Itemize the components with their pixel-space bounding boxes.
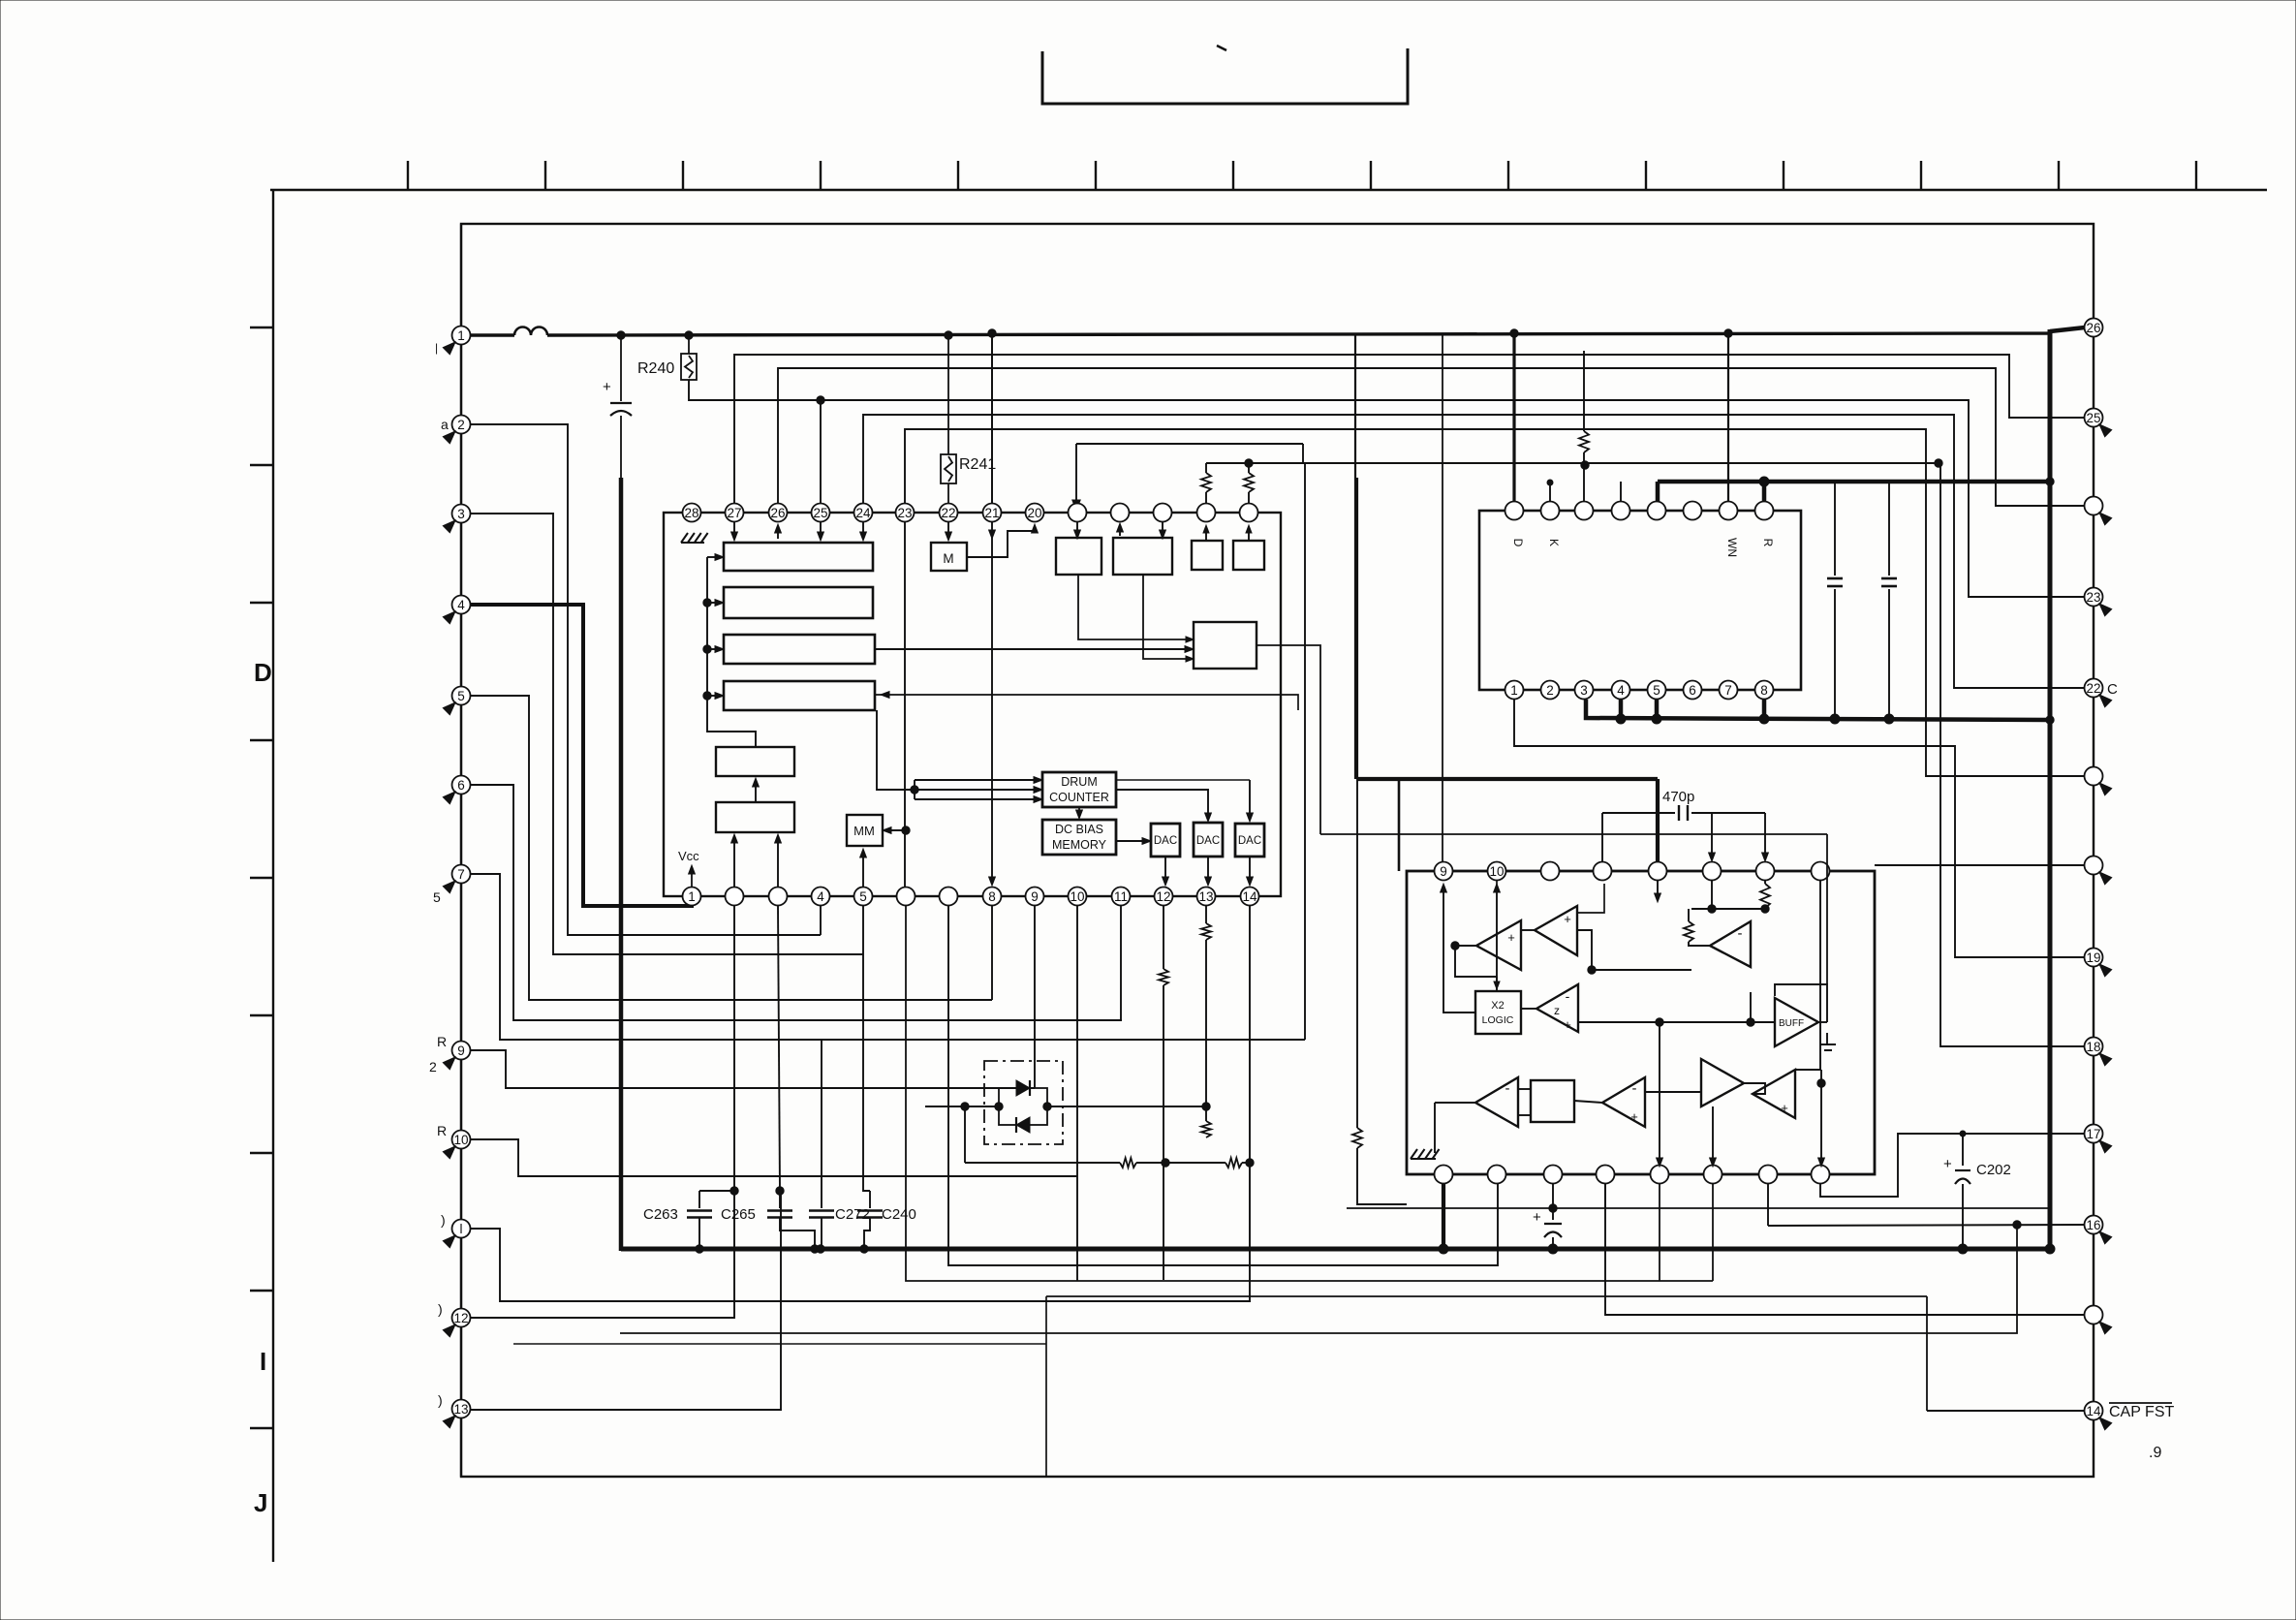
svg-text:WN: WN	[1725, 538, 1739, 557]
svg-text:MM: MM	[853, 824, 875, 838]
svg-text:CAP FST: CAP FST	[2109, 1404, 2175, 1420]
svg-text:C272: C272	[835, 1206, 870, 1223]
svg-text:10: 10	[1070, 889, 1084, 904]
svg-text:DAC: DAC	[1238, 835, 1261, 847]
svg-text:22: 22	[941, 506, 955, 520]
svg-text:27: 27	[727, 506, 741, 520]
svg-text:7: 7	[1724, 683, 1732, 698]
svg-text:19: 19	[2086, 950, 2100, 965]
svg-text:10: 10	[1489, 864, 1504, 879]
svg-text:9: 9	[457, 1044, 465, 1058]
svg-text:+: +	[1781, 1101, 1788, 1115]
svg-text:+: +	[603, 379, 611, 395]
svg-text:3: 3	[457, 507, 465, 521]
svg-text:21: 21	[984, 506, 999, 520]
svg-text:+: +	[1533, 1209, 1541, 1226]
svg-text:22: 22	[2086, 681, 2100, 696]
svg-text:4: 4	[457, 598, 465, 612]
svg-text:R241: R241	[959, 456, 996, 473]
svg-text:C265: C265	[721, 1206, 756, 1223]
svg-text:+: +	[1564, 912, 1571, 926]
svg-text:+: +	[1564, 1017, 1571, 1032]
svg-text:5: 5	[457, 689, 465, 703]
svg-text:DC BIAS: DC BIAS	[1055, 823, 1103, 836]
svg-text:28: 28	[684, 506, 698, 520]
svg-text:+: +	[1943, 1156, 1952, 1172]
svg-text:14: 14	[2086, 1404, 2101, 1418]
svg-text:5: 5	[859, 889, 867, 904]
svg-text:23: 23	[897, 506, 912, 520]
svg-text:.9: .9	[2149, 1445, 2161, 1461]
svg-text:a: a	[441, 417, 449, 432]
svg-text:9: 9	[1031, 889, 1039, 904]
svg-text:COUNTER: COUNTER	[1049, 791, 1109, 804]
svg-text:13: 13	[1198, 889, 1213, 904]
svg-text:6: 6	[1689, 683, 1696, 698]
svg-text:470p: 470p	[1662, 789, 1694, 805]
svg-text:K: K	[1547, 539, 1561, 546]
svg-text:D: D	[254, 658, 272, 687]
svg-text:25: 25	[2086, 411, 2100, 425]
svg-text:J: J	[254, 1488, 267, 1517]
svg-text:): )	[441, 1212, 446, 1228]
svg-text:-: -	[1566, 988, 1570, 1004]
svg-text:R240: R240	[637, 360, 674, 377]
svg-text:14: 14	[1242, 889, 1257, 904]
svg-text:l: l	[460, 1222, 463, 1236]
svg-text:18: 18	[2086, 1040, 2100, 1054]
svg-text:8: 8	[1760, 683, 1768, 698]
svg-text:DRUM: DRUM	[1061, 775, 1098, 789]
svg-text:20: 20	[1027, 506, 1041, 520]
svg-text:16: 16	[2086, 1218, 2100, 1232]
svg-text:z: z	[1554, 1004, 1560, 1017]
svg-text:26: 26	[2086, 321, 2100, 335]
svg-text:23: 23	[2086, 590, 2100, 605]
svg-text:R: R	[1761, 539, 1775, 547]
svg-text:11: 11	[1114, 889, 1128, 904]
svg-text:4: 4	[1617, 683, 1625, 698]
svg-text:25: 25	[813, 506, 827, 520]
svg-text:+: +	[1507, 930, 1515, 945]
svg-text:BUFF: BUFF	[1779, 1018, 1804, 1029]
svg-text:3: 3	[1580, 683, 1588, 698]
svg-text:DAC: DAC	[1196, 835, 1220, 847]
svg-text:2: 2	[457, 418, 465, 432]
svg-text:5: 5	[1653, 683, 1660, 698]
svg-text:+: +	[1630, 1109, 1638, 1124]
svg-text:8: 8	[988, 889, 996, 904]
svg-text:13: 13	[453, 1402, 468, 1417]
svg-text:R: R	[437, 1123, 447, 1138]
svg-text:17: 17	[2086, 1127, 2100, 1141]
svg-text:): )	[438, 1392, 443, 1408]
svg-text:5: 5	[433, 889, 441, 905]
svg-text:-: -	[1738, 925, 1743, 942]
svg-text:12: 12	[1156, 889, 1170, 904]
svg-text:LOGIC: LOGIC	[1482, 1014, 1514, 1026]
svg-text:7: 7	[457, 867, 465, 882]
svg-text:C240: C240	[882, 1206, 916, 1223]
svg-text:26: 26	[770, 506, 785, 520]
svg-text:C: C	[2107, 681, 2118, 698]
svg-text:R: R	[437, 1034, 447, 1049]
svg-text:9: 9	[1440, 864, 1447, 879]
svg-text:1: 1	[457, 328, 465, 343]
svg-text:X2: X2	[1491, 1000, 1504, 1012]
svg-text:-: -	[1632, 1080, 1637, 1097]
svg-text:10: 10	[453, 1133, 468, 1147]
svg-text:2: 2	[1546, 683, 1554, 698]
svg-text:C202: C202	[1976, 1162, 2011, 1178]
svg-text:): )	[438, 1301, 443, 1317]
svg-text:I: I	[260, 1347, 266, 1376]
svg-text:1: 1	[1510, 683, 1518, 698]
svg-text:C263: C263	[643, 1206, 678, 1223]
svg-text:1: 1	[688, 889, 696, 904]
svg-text:24: 24	[855, 506, 871, 520]
svg-text:|: |	[435, 341, 438, 355]
svg-text:4: 4	[817, 889, 824, 904]
svg-text:DAC: DAC	[1154, 835, 1177, 847]
svg-text:D: D	[1511, 539, 1525, 547]
svg-text:MEMORY: MEMORY	[1052, 838, 1107, 852]
svg-text:-: -	[1505, 1080, 1510, 1097]
svg-text:M: M	[943, 551, 953, 566]
svg-text:6: 6	[457, 778, 465, 793]
svg-text:2: 2	[429, 1059, 437, 1075]
svg-text:12: 12	[453, 1311, 468, 1325]
svg-text:Vcc: Vcc	[678, 849, 699, 863]
